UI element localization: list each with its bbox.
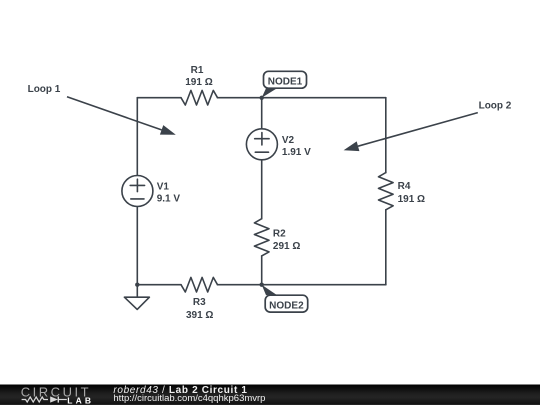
wire left lower segment: [136, 207, 138, 285]
resistor R1: [181, 90, 218, 105]
svg-text:V1: V1: [157, 182, 170, 193]
wire left upper segment: [136, 98, 138, 176]
svg-text:R2: R2: [273, 228, 286, 239]
resistor R4: [379, 173, 394, 210]
label V1 value 9.1 V: [157, 182, 181, 205]
wire middle mid segment: [261, 160, 263, 219]
label R3 value 391 ohm: [186, 297, 213, 321]
wire bottom middle segment: [218, 284, 262, 286]
wire middle lower segment: [261, 256, 263, 285]
svg-text:NODE2: NODE2: [269, 300, 304, 311]
wire bottom left segment: [137, 284, 181, 286]
label R1 value 191 ohm: [185, 65, 212, 88]
footer bar: [0, 385, 540, 405]
wire right lower segment: [385, 210, 387, 285]
logo CircuitLab: [21, 384, 94, 405]
wire top left segment: [137, 97, 181, 99]
svg-text:LAB: LAB: [67, 396, 94, 405]
svg-text:Loop 2: Loop 2: [479, 100, 512, 111]
resistor R2: [254, 219, 269, 256]
svg-text:1.91 V: 1.91 V: [282, 147, 311, 158]
svg-text:391 Ω: 391 Ω: [186, 310, 213, 321]
svg-text:191 Ω: 191 Ω: [185, 77, 212, 88]
wire right upper segment: [385, 98, 387, 173]
wire top right segment: [262, 97, 386, 99]
node NODE1: [260, 71, 307, 100]
svg-text:NODE1: NODE1: [268, 76, 303, 87]
svg-text:191 Ω: 191 Ω: [398, 194, 425, 205]
ground: [124, 285, 149, 310]
svg-text:9.1 V: 9.1 V: [157, 194, 181, 205]
svg-text:291 Ω: 291 Ω: [273, 241, 300, 252]
voltage source V2: [246, 129, 277, 160]
label R4 value 191 ohm: [398, 181, 425, 205]
label R2 value 291 ohm: [273, 228, 300, 252]
svg-text:http://circuitlab.com/c4qqhkp6: http://circuitlab.com/c4qqhkp63mvrp: [113, 393, 265, 404]
resistor R3: [181, 277, 218, 292]
svg-text:R4: R4: [398, 181, 411, 192]
svg-text:R3: R3: [193, 297, 206, 308]
node NODE2: [260, 283, 308, 313]
wire top middle segment: [218, 97, 262, 99]
voltage source V1: [122, 176, 153, 207]
annotation Loop 1: [28, 84, 176, 135]
wire middle upper segment: [261, 98, 263, 129]
svg-text:Loop 1: Loop 1: [28, 84, 61, 95]
svg-text:V2: V2: [282, 135, 295, 146]
node junction ground: [135, 283, 139, 287]
svg-text:R1: R1: [191, 65, 204, 76]
label V2 value 1.91 V: [282, 135, 311, 158]
wire bottom right segment: [262, 284, 386, 286]
annotation Loop 2: [344, 100, 512, 151]
